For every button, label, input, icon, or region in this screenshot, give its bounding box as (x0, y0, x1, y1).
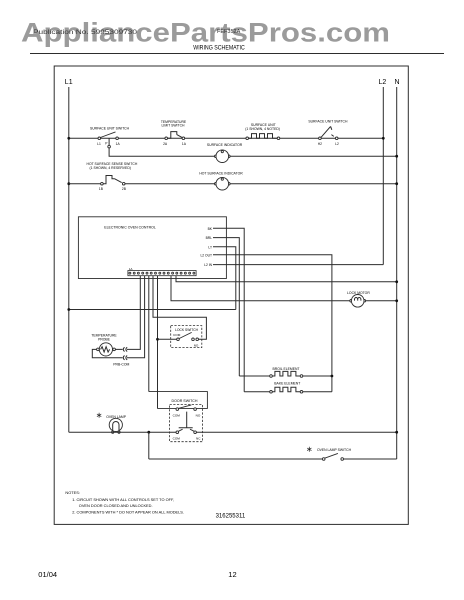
wire door switch NC to N (196, 431, 396, 433)
bottom (69, 276, 398, 461)
notes (38, 490, 246, 579)
elements (239, 367, 333, 393)
svg-text:12: 12 (228, 570, 236, 579)
svg-text:DOOR SWITCH: DOOR SWITCH (172, 399, 198, 403)
svg-text:BK: BK (208, 227, 213, 231)
svg-text:PROBE: PROBE (98, 338, 111, 342)
wire L1 feed to LT column (69, 309, 236, 311)
svg-text:OVEN DOOR CLOSED AND UNLOCKED.: OVEN DOOR CLOSED AND UNLOCKED. (79, 503, 153, 508)
node junction dot N lock motor (395, 299, 398, 302)
svg-text:COM: COM (173, 413, 181, 417)
svg-text:BAKE ELEMENT: BAKE ELEMENT (274, 382, 300, 386)
svg-text:ELECTRONIC OVEN CONTROL: ELECTRONIC OVEN CONTROL (104, 225, 156, 229)
door switch upper contacts (176, 405, 196, 411)
wire L2 OUT (213, 255, 332, 392)
svg-text:L2 IN: L2 IN (204, 263, 212, 267)
node junction dot lock switch COM (156, 338, 159, 341)
header underline (30, 53, 444, 55)
lock switch box (171, 326, 202, 348)
svg-text:L2: L2 (335, 142, 339, 146)
wire P to surface indicator row (109, 148, 216, 156)
wire LT (213, 247, 236, 310)
wire surface unit line L1 to L2 (69, 137, 384, 139)
wire L2 IN to L2 bus (213, 264, 383, 266)
temperature probe RT1 (97, 343, 116, 356)
midright (171, 276, 398, 307)
svg-text:WIRING SCHEMATIC: WIRING SCHEMATIC (193, 46, 245, 52)
svg-text:NC: NC (196, 436, 201, 440)
wire EOC to lock motor (171, 276, 350, 301)
wire BK to bake element (213, 228, 244, 391)
svg-text:FEF352A: FEF352A (217, 29, 241, 35)
wire EOC to lock switch NO (153, 276, 206, 340)
wire L1 to hot surface sense switch (69, 183, 101, 185)
svg-text:BROIL ELEMENT: BROIL ELEMENT (272, 367, 299, 371)
svg-text:1A: 1A (182, 142, 187, 146)
node junction dot N row3 (395, 182, 398, 185)
wire BRL to broil element (213, 238, 239, 376)
svg-text:SURFACE UNIT SWITCH: SURFACE UNIT SWITCH (308, 120, 348, 124)
wire hot surface indicator to N (230, 183, 397, 185)
hot surface sense switch (101, 176, 125, 186)
oven lamp switch S4 (322, 453, 343, 460)
svg-text:(1 SHOWN, 4 RESERVED): (1 SHOWN, 4 RESERVED) (90, 166, 131, 170)
wire EOC column to door switch (148, 276, 150, 392)
wire N bus (396, 87, 398, 459)
wire sense switch to hot surface indicator (125, 183, 216, 185)
node junction dot N door switch (395, 431, 398, 434)
node junction dot L2 OUT column (331, 375, 334, 378)
svg-text:SURFACE UNIT: SURFACE UNIT (251, 123, 276, 127)
door switch box (149, 392, 208, 409)
svg-text:01/04: 01/04 (38, 570, 57, 579)
svg-text:1A: 1A (116, 142, 121, 146)
wire lamp junction to oven lamp switch row (148, 432, 150, 459)
wire probe lower lead (92, 276, 144, 358)
surface unit switch S1 (98, 132, 118, 140)
svg-text:1. CIRCUIT SHOWN WITH ALL CON: 1. CIRCUIT SHOWN WITH ALL CONTROLS SET T… (72, 497, 174, 502)
svg-text:L2 OUT: L2 OUT (200, 253, 212, 257)
svg-text:1B: 1B (99, 187, 104, 191)
svg-text:TEMPERATURE: TEMPERATURE (91, 334, 117, 338)
svg-text:(1 SHOWN, 4 NOTED): (1 SHOWN, 4 NOTED) (245, 127, 280, 131)
svg-text:COM: COM (173, 436, 181, 440)
wire L2 bus (382, 87, 384, 265)
node junction dot oven lamp (147, 431, 150, 434)
svg-text:PRB-COM: PRB-COM (113, 362, 129, 366)
surface indicator lamp (215, 150, 231, 163)
row23 (67, 143, 398, 191)
wire EOC neutral to N (176, 276, 397, 282)
door switch actuator link (179, 412, 193, 428)
wire P terminal drop (108, 138, 110, 145)
node junction dot L2 line (382, 137, 385, 140)
svg-text:SURFACE INDICATOR: SURFACE INDICATOR (207, 143, 243, 147)
node junction dot L1 row3 (67, 182, 70, 185)
surface unit switch S2 (319, 126, 338, 139)
wire probe upper lead (115, 276, 140, 350)
node junction dot N row2 (395, 155, 398, 158)
wire oven lamp switch to N (344, 458, 397, 460)
node junction dot L1 row1 (67, 137, 70, 140)
svg-text:COM: COM (173, 333, 181, 337)
terminal strip connector (128, 271, 196, 276)
svg-text:LT: LT (208, 245, 212, 249)
svg-text:NOTES:: NOTES: (65, 490, 79, 495)
wire broil element to L2 OUT column (303, 375, 332, 377)
svg-text:SURFACE UNIT SWITCH: SURFACE UNIT SWITCH (90, 126, 130, 130)
oven lamp DS1 (109, 418, 122, 433)
wire L1 to oven lamp and door switch (69, 431, 176, 433)
svg-text:LOCK SWITCH: LOCK SWITCH (175, 328, 199, 332)
svg-text:Publication No. 5995309730: Publication No. 5995309730 (33, 29, 138, 36)
svg-text:L1: L1 (65, 79, 73, 86)
door switch contact box (170, 405, 203, 442)
node junction dot L1 feed (67, 308, 70, 311)
wire lock motor to N (366, 300, 397, 302)
door switch lower contacts (176, 429, 196, 433)
wire to lock switch COM (158, 338, 177, 340)
svg-text:BRL: BRL (206, 236, 213, 240)
connector P (108, 145, 111, 148)
lock motor M1 (350, 295, 366, 308)
temperature limit switch (165, 132, 185, 140)
svg-text:P: P (105, 142, 108, 146)
svg-text:H2: H2 (318, 142, 322, 146)
electronic oven control U1 box (78, 217, 226, 279)
svg-text:2. COMPONENTS WITH * DO NOT: 2. COMPONENTS WITH * DO NOT APPEAR ON AL… (72, 509, 184, 514)
probe-lock (91, 276, 206, 409)
wire BRL column to broil element (239, 375, 269, 377)
svg-text:316255311: 316255311 (216, 514, 246, 520)
svg-text:N: N (395, 79, 400, 86)
svg-text:2B: 2B (122, 187, 127, 191)
wire L1 bus (68, 87, 70, 432)
hot surface indicator lamp (215, 177, 231, 190)
svg-text:LIMIT SWITCH: LIMIT SWITCH (162, 124, 185, 128)
svg-text:HOT SURFACE INDICATOR: HOT SURFACE INDICATOR (199, 171, 243, 175)
svg-text:NO: NO (194, 343, 199, 347)
asterisk oven lamp switch (307, 447, 311, 452)
asterisk oven lamp (97, 413, 101, 418)
wire BK column to bake element (244, 391, 270, 393)
bake element (270, 387, 303, 393)
wire surface indicator to N (230, 155, 397, 157)
svg-text:2A: 2A (163, 142, 168, 146)
wire lamp junction to oven lamp switch (149, 458, 323, 460)
node junction dot N neutral (395, 280, 398, 283)
connector probe lower (123, 356, 127, 360)
row1 (67, 120, 384, 148)
connector probe upper (123, 347, 127, 351)
svg-text:NO: NO (196, 413, 201, 417)
wire EOC to lock switch COM and door switch (157, 276, 159, 409)
svg-text:L2: L2 (379, 79, 387, 86)
broil element (270, 371, 303, 377)
svg-text:L1: L1 (97, 142, 101, 146)
schematic border frame (54, 66, 408, 524)
surface unit heating element (246, 134, 280, 140)
header (21, 18, 444, 54)
wire bake element to L2 OUT column (303, 391, 332, 393)
lock switch S3 (177, 332, 199, 340)
eoc (67, 217, 398, 392)
svg-text:OVEN LAMP SWITCH: OVEN LAMP SWITCH (317, 448, 352, 452)
